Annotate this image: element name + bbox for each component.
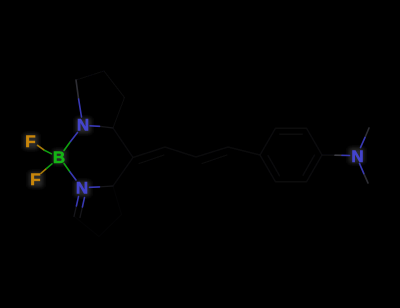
svg-text:N: N [76, 179, 88, 198]
svg-text:F: F [25, 132, 35, 151]
svg-text:N: N [77, 116, 89, 135]
svg-text:N: N [351, 147, 363, 166]
svg-text:B: B [53, 148, 65, 167]
svg-text:F: F [30, 170, 40, 189]
